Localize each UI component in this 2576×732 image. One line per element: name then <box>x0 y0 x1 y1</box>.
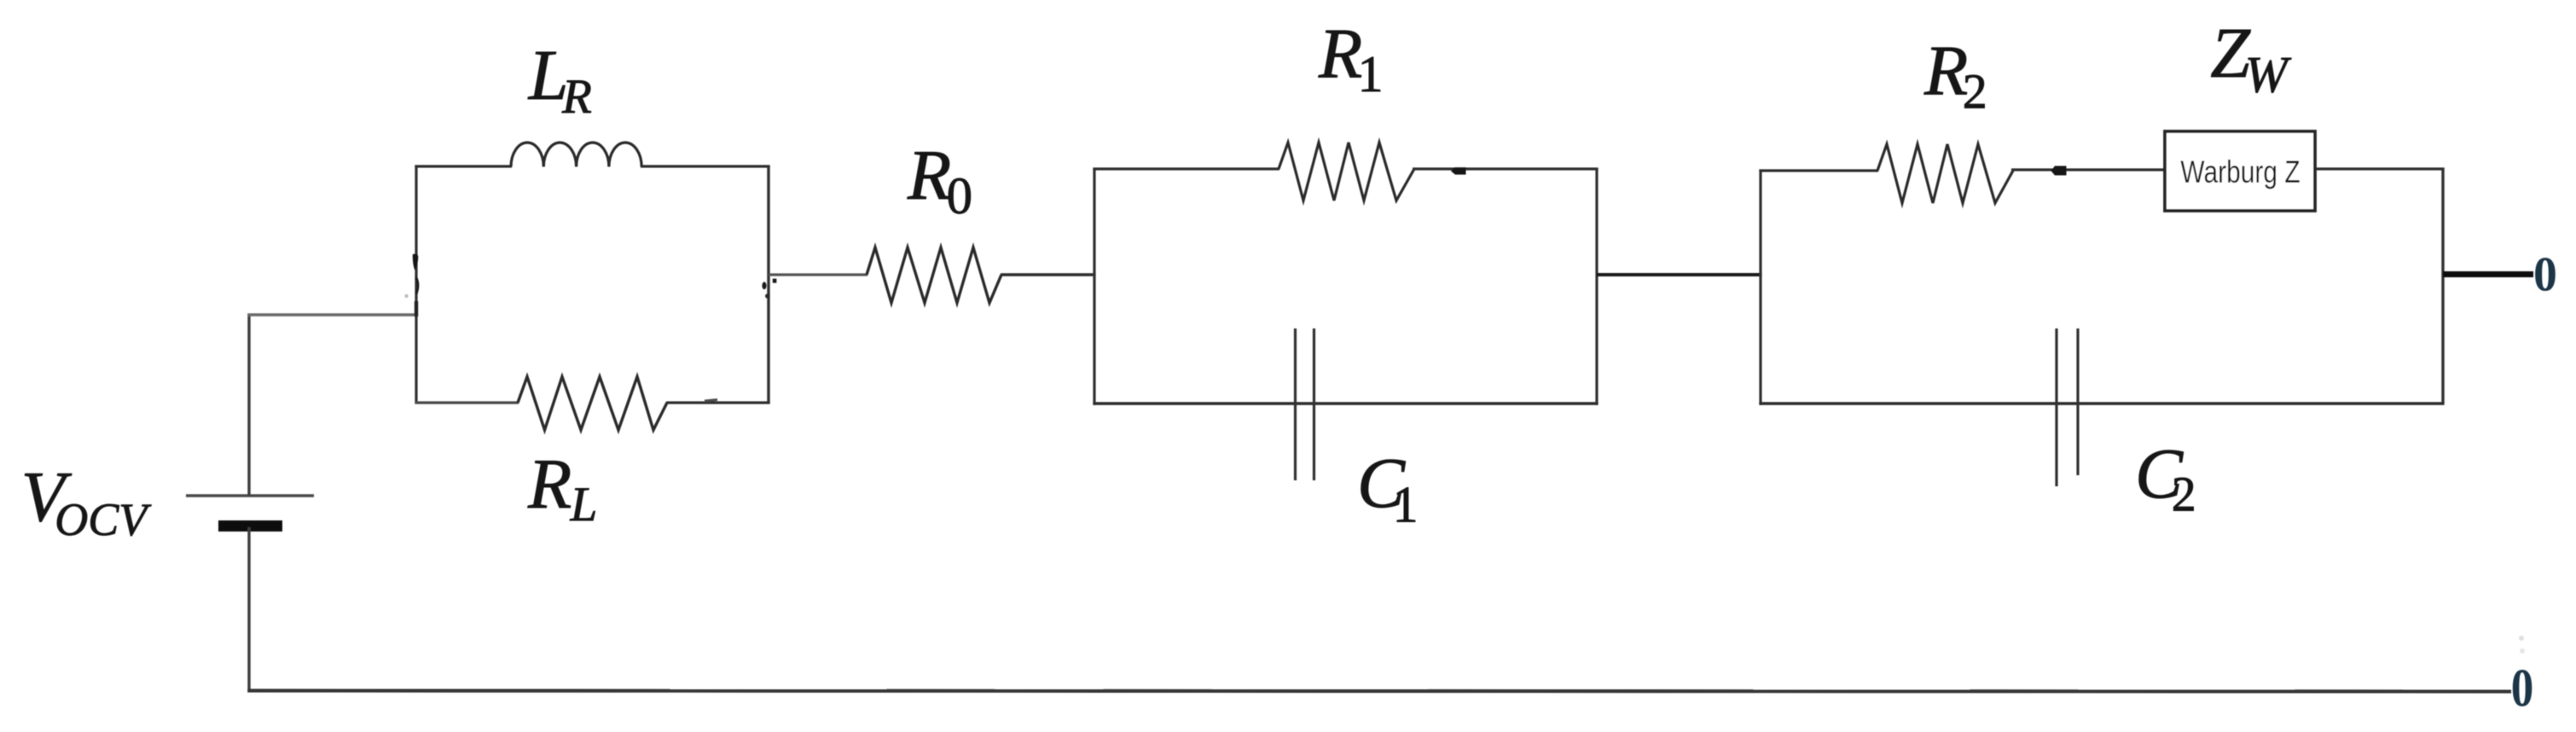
resistor RL zigzag <box>518 377 667 431</box>
node block2 left edge <box>1093 168 1095 405</box>
wire battery negative lead vertical <box>247 527 250 692</box>
svg-text:R: R <box>1923 32 1968 111</box>
arrow curl at block1 right exit <box>762 279 776 299</box>
resistor R0 zigzag <box>867 247 1001 303</box>
label R_2 <box>1923 32 1987 119</box>
svg-text:L: L <box>570 478 598 532</box>
wire Warburg box to block3 right edge <box>2316 167 2445 170</box>
resistor R2 zigzag <box>1877 144 2013 203</box>
wire R0 to block2 <box>1001 273 1096 276</box>
label R_1 <box>1318 15 1384 103</box>
node block3 right edge <box>2441 168 2444 404</box>
arrow mark on block3 top wire <box>2051 166 2067 176</box>
svg-text:R: R <box>527 444 571 524</box>
wire R2 to Warburg box <box>2011 168 2166 171</box>
svg-text:R: R <box>907 136 951 215</box>
wire bottom return rail <box>247 691 2511 692</box>
Warburg element ZW box <box>2165 131 2315 211</box>
wire block3 top-left segment <box>1759 169 1878 171</box>
svg-text:OCV: OCV <box>55 494 152 545</box>
wire output terminal stub thick <box>2443 271 2533 277</box>
voltage source V_OCV battery top plate <box>186 494 314 497</box>
svg-text:2: 2 <box>1963 64 1987 119</box>
capacitor C2 left plate <box>2055 328 2057 486</box>
inductor LR <box>511 142 641 166</box>
node block1 right edge <box>767 166 769 404</box>
label V_OCV <box>21 457 153 545</box>
svg-text:R: R <box>561 70 592 124</box>
capacitor C1 left plate <box>1294 328 1297 480</box>
wire block1 top-left segment <box>415 165 512 167</box>
wire block2 to block3 <box>1597 273 1762 276</box>
terminal 0 bottom-right <box>2511 658 2534 718</box>
wire block2 bottom edge <box>1093 402 1598 404</box>
svg-text:1: 1 <box>1358 46 1384 102</box>
dash artifact on block1 bottom edge <box>705 400 717 402</box>
wire battery positive lead vertical <box>247 314 250 497</box>
svg-text:0: 0 <box>2511 658 2534 718</box>
label C_2 <box>2135 434 2196 522</box>
node block1 left edge <box>415 166 417 404</box>
wire block1 to R0 <box>769 273 867 276</box>
resistor R1 zigzag <box>1279 142 1414 200</box>
node block3 left edge <box>1759 170 1761 405</box>
ghost dots above bottom terminal <box>2519 636 2525 654</box>
label L_R <box>528 36 592 124</box>
Warburg element ZW text <box>2180 155 2300 190</box>
wire block1 bottom-left segment <box>415 401 519 404</box>
label R_L <box>527 444 597 532</box>
svg-text:1: 1 <box>1393 477 1419 533</box>
svg-text:2: 2 <box>2172 467 2196 522</box>
wire block2 top-right segment <box>1413 167 1598 170</box>
wire block3 bottom edge <box>1759 402 2444 404</box>
svg-text:R: R <box>1318 15 1362 94</box>
svg-text:W: W <box>2245 47 2292 103</box>
wire battery to block1 horizontal <box>247 313 417 317</box>
wire block1 top-right segment <box>641 165 770 167</box>
capacitor C2 right plate <box>2076 328 2079 475</box>
capacitor C1 right plate <box>1313 328 1315 480</box>
wire block2 top-left segment <box>1093 167 1279 170</box>
svg-text:Warburg Z: Warburg Z <box>2180 155 2300 190</box>
arrow mark on block2 top wire <box>1451 167 1466 174</box>
label C_1 <box>1357 444 1419 533</box>
wire block1 bottom-right segment <box>666 401 770 404</box>
svg-text:0: 0 <box>2533 248 2557 302</box>
terminal 0 top-right <box>2533 248 2557 302</box>
label Z_W <box>2210 14 2292 103</box>
svg-text:0: 0 <box>947 168 973 225</box>
label R_0 <box>907 136 972 225</box>
voltage source V_OCV battery bottom plate <box>218 520 282 532</box>
node block2 right edge <box>1595 168 1598 405</box>
arrow mark on block1 left edge <box>404 254 418 317</box>
